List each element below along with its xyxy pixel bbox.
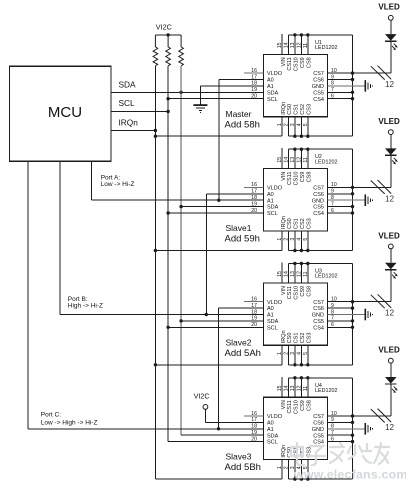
bus-width slash marks (U2) (371, 180, 391, 194)
svg-text:CS1: CS1 (294, 104, 300, 115)
node U2 right bus junctions (351, 186, 354, 215)
terminal VI2C (U4 A0) (194, 391, 210, 409)
svg-text:IRQn: IRQn (281, 216, 287, 229)
node U1 SCL junction (166, 97, 169, 100)
decorative watermark (site logo, light gray) (291, 443, 406, 482)
wire U4 GND pin8 (328, 428, 366, 430)
wire SDA (MCU to U1 pin19 and SDA trunk) (111, 80, 264, 93)
wire U1 CS8-CS11 top bus (288, 35, 352, 54)
node U3 SDA junction (179, 319, 182, 322)
svg-text:SCL: SCL (267, 325, 278, 331)
svg-text:Slave2: Slave2 (226, 337, 252, 347)
wire U4 IRQn pin1 to trunk (155, 460, 282, 480)
svg-text:12: 12 (385, 309, 395, 318)
svg-text:CS9: CS9 (300, 400, 306, 411)
wire U4 VIN stub pin15 (281, 377, 283, 397)
svg-text:CS10: CS10 (294, 57, 300, 71)
U2 right pin number labels (331, 182, 337, 214)
svg-text:SCL: SCL (119, 98, 136, 108)
svg-text:CS6: CS6 (313, 78, 324, 84)
svg-text:CS8: CS8 (307, 57, 313, 68)
svg-text:VLED: VLED (378, 3, 400, 12)
svg-text:GND: GND (312, 198, 324, 204)
wire U2 VLDO stub pin16 (244, 186, 264, 188)
wire U2 CS0-CS3 bottom bus (288, 231, 352, 251)
node U4 SDA junction (0, 0, 1, 1)
wire U1 CS0-CS3 bottom bus (288, 117, 352, 137)
wire U1 right CS pins to bus (328, 35, 353, 136)
wire SCL trunk vertical (167, 66, 169, 442)
svg-text:A1: A1 (267, 427, 274, 433)
svg-text:Add 58h: Add 58h (225, 119, 260, 130)
svg-text:12: 12 (385, 423, 395, 432)
svg-text:A1: A1 (267, 198, 274, 204)
node U3 bottom bus junctions (293, 363, 309, 366)
wire U1 LED return to CS bus (353, 41, 391, 73)
wire SCL (MCU to SCL trunk) (111, 98, 168, 112)
svg-text:CS5: CS5 (313, 433, 324, 439)
wire U4 SDA pin19 from trunk (181, 434, 263, 436)
wire U4 CS0-CS3 bottom bus (288, 460, 352, 480)
svg-text:Add 5Bh: Add 5Bh (225, 462, 261, 473)
node U2 SCL junction (166, 211, 169, 214)
wire U4 SCL pin20 from trunk (168, 441, 263, 443)
svg-text:12: 12 (385, 194, 395, 203)
svg-text:CS4: CS4 (313, 440, 324, 446)
bus width label 12 (U2) (385, 194, 395, 203)
LED D2 (12x LED string of U2) (385, 135, 398, 165)
wire U3 SCL pin20 from trunk (168, 326, 263, 328)
svg-text:Slave3: Slave3 (226, 452, 252, 462)
LED D3 (12x LED string of U3) (385, 249, 398, 279)
U2 left pin number labels (251, 182, 257, 214)
wire U3 LED return to CS bus (353, 270, 391, 302)
svg-text:SDA: SDA (267, 205, 279, 211)
LED D4 (12x LED string of U4) (385, 363, 398, 393)
node SCL-MCU junction (166, 110, 169, 113)
svg-text:VLDO: VLDO (267, 414, 283, 420)
svg-text:12: 12 (385, 80, 395, 89)
svg-text:CS0: CS0 (287, 333, 293, 344)
U4 bottom pin number labels (277, 466, 309, 469)
wire U3 GND pin8 (328, 314, 366, 316)
svg-text:SDA: SDA (267, 433, 279, 439)
svg-text:VLED: VLED (378, 231, 400, 240)
svg-text:LED1202: LED1202 (315, 388, 337, 394)
svg-text:VLED: VLED (378, 117, 400, 126)
wire U2 VIN stub pin15 (281, 148, 283, 168)
wire U3 VIN stub pin15 (281, 263, 283, 283)
svg-text:CS7: CS7 (313, 300, 324, 306)
wire Port A (MCU to U2 A1) (92, 161, 264, 200)
terminal VLED (U3 LED supply) (378, 231, 400, 249)
svg-text:VIN: VIN (281, 400, 287, 409)
ground (U1 A1) (193, 105, 207, 113)
wire U3 SDA pin19 from trunk (181, 320, 263, 322)
node U2 top bus junctions (293, 148, 309, 151)
svg-text:CS10: CS10 (294, 400, 300, 414)
wire IRQn (MCU to IRQn trunk) (111, 117, 155, 130)
U1 right pin number labels (331, 68, 337, 100)
node A0/PortC junction (217, 427, 220, 430)
wire U4 right CS pins to bus (328, 378, 353, 479)
svg-text:CS2: CS2 (300, 104, 306, 115)
svg-text:A0: A0 (267, 78, 274, 84)
svg-text:LED1202: LED1202 (315, 274, 337, 280)
svg-text:CS7: CS7 (313, 186, 324, 192)
wire SDA trunk vertical (180, 66, 182, 435)
U1 left pin number labels (251, 68, 257, 100)
LED D1 (12x LED string of U1) (385, 20, 398, 50)
svg-text:CS2: CS2 (300, 218, 306, 229)
node U4 top bus junctions (293, 376, 309, 379)
U3 right pin number labels (331, 297, 337, 329)
wire IRQn trunk vertical (154, 66, 156, 479)
ground (U2 pin8) (365, 194, 372, 206)
svg-text:CS11: CS11 (287, 57, 293, 70)
wire Port B (MCU to U3 A1) (60, 161, 264, 314)
svg-text:SDA: SDA (267, 319, 279, 325)
wire U2 IRQn pin1 to trunk (155, 231, 282, 251)
svg-text:18: 18 (251, 195, 257, 201)
svg-text:IRQn: IRQn (281, 102, 287, 115)
node IRQn-MCU junction (154, 129, 157, 132)
svg-text:CS6: CS6 (313, 306, 324, 312)
svg-text:Master: Master (226, 109, 252, 119)
node U4 bottom bus junctions (293, 477, 309, 480)
node U3 right bus junctions (351, 300, 354, 329)
U2 bottom pin number labels (277, 238, 309, 241)
wire U2 GND pin8 (328, 199, 366, 201)
svg-text:CS6: CS6 (313, 192, 324, 198)
svg-text:CS1: CS1 (294, 333, 300, 344)
bus width label 12 (U1) (385, 80, 395, 89)
svg-text:LED1202: LED1202 (315, 159, 337, 165)
svg-text:CS11: CS11 (287, 286, 293, 299)
svg-text:SCL: SCL (267, 97, 278, 103)
ground (U3 pin8) (365, 309, 372, 321)
wire U1 IRQn pin1 to trunk (155, 117, 282, 137)
svg-text:Low -> Hi-Z: Low -> Hi-Z (101, 181, 135, 188)
svg-text:CS5: CS5 (313, 90, 324, 96)
svg-text:CS9: CS9 (300, 57, 306, 68)
node U2 SDA junction (179, 205, 182, 208)
bus-width slash marks (U1) (371, 66, 391, 80)
ground (U1 pin8) (365, 80, 372, 92)
svg-text:SCL: SCL (267, 440, 278, 446)
svg-text:GND: GND (312, 313, 324, 319)
svg-text:MCU: MCU (48, 104, 82, 121)
op IC U4 LED1202 body (264, 383, 338, 460)
wire U3 right CS pins to bus (328, 264, 353, 365)
svg-text:CS1: CS1 (294, 218, 300, 229)
svg-text:CS0: CS0 (287, 104, 293, 115)
U2 top pin number labels (277, 157, 309, 163)
svg-text:CS8: CS8 (307, 286, 313, 297)
node U1 bottom bus junctions (293, 135, 309, 138)
wire U2 CS8-CS11 top bus (288, 149, 352, 168)
bus-width slash marks (U3) (371, 294, 391, 308)
node U4 right bus junctions (351, 414, 354, 443)
svg-text:SDA: SDA (119, 80, 137, 90)
wire U1 GND pin8 (328, 85, 366, 87)
svg-text:18: 18 (251, 309, 257, 315)
U4 right pin number labels (331, 411, 337, 443)
wire U2 SCL pin20 from trunk (168, 212, 263, 214)
svg-text:High -> Hi-Z: High -> Hi-Z (68, 302, 103, 309)
node VI2C rail junction (166, 33, 169, 36)
svg-text:CS8: CS8 (307, 172, 313, 183)
svg-text:CS11: CS11 (287, 172, 293, 185)
svg-text:18: 18 (251, 424, 257, 430)
wire U1 A0 to Port A net (219, 80, 264, 201)
svg-text:CS10: CS10 (294, 286, 300, 300)
bus-width slash marks (U4) (371, 409, 391, 423)
node A0/PortA junction (217, 199, 220, 202)
svg-text:CS4: CS4 (313, 97, 324, 103)
wire U1 SDA pin19 from trunk (0, 0, 1, 1)
U4 left pin number labels (251, 411, 257, 443)
svg-text:19: 19 (251, 87, 257, 93)
wire U1 SCL pin20 from trunk (168, 98, 263, 100)
node A0/PortB junction (205, 313, 208, 316)
svg-text:IRQn: IRQn (119, 117, 139, 127)
node U2 bottom bus junctions (293, 249, 309, 252)
bus width label 12 (U3) (385, 309, 395, 318)
svg-text:CS5: CS5 (313, 205, 324, 211)
svg-text:GND: GND (312, 84, 324, 90)
svg-text:LED1202: LED1202 (315, 45, 337, 51)
svg-text:VLDO: VLDO (267, 300, 283, 306)
wire U3 CS8-CS11 top bus (288, 264, 352, 283)
svg-text:GND: GND (312, 427, 324, 433)
U3 left pin number labels (251, 297, 257, 329)
svg-text:VLDO: VLDO (267, 71, 283, 77)
terminal VLED (U4 LED supply) (378, 346, 400, 364)
svg-text:CS11: CS11 (287, 400, 293, 413)
op IC U1 LED1202 body (264, 40, 338, 117)
wire VI2C terminal to U4 A0 (205, 409, 263, 422)
svg-text:VI2C: VI2C (194, 391, 210, 400)
svg-text:CS9: CS9 (300, 172, 306, 183)
node U3 top bus junctions (293, 262, 309, 265)
wire Port C (MCU to U4 A1) (28, 161, 263, 429)
svg-text:SDA: SDA (267, 90, 279, 96)
svg-text:CS2: CS2 (300, 333, 306, 344)
U2 designation label Slave1 Add 59h (225, 223, 260, 245)
svg-text:Low -> High -> Hi-Z: Low -> High -> Hi-Z (41, 419, 98, 426)
node SDA trunk junction (179, 91, 182, 94)
bus width label 12 (U4) (385, 423, 395, 432)
svg-text:IRQn: IRQn (281, 445, 287, 458)
U4 designation label Slave3 Add 5Bh (225, 452, 261, 474)
MCU block (10, 66, 112, 161)
U4 top pin number labels (277, 385, 309, 391)
U3 designation label Slave2 Add 5Ah (225, 337, 261, 359)
U3 top pin number labels (277, 271, 309, 277)
resistor R3 (SDA pull-up) (179, 35, 184, 66)
U1 top pin number labels (277, 42, 309, 48)
svg-text:CS9: CS9 (300, 286, 306, 297)
svg-text:VIN: VIN (281, 57, 287, 66)
svg-text:IRQn: IRQn (281, 330, 287, 343)
op IC U3 LED1202 body (264, 269, 338, 346)
svg-text:VLDO: VLDO (267, 186, 283, 192)
svg-text:A0: A0 (267, 306, 274, 312)
wire U4 LED return to CS bus (353, 384, 391, 416)
resistor R2 (SCL pull-up) (166, 35, 171, 66)
wire U1 A1 to ground (200, 86, 263, 105)
svg-text:CS3: CS3 (307, 104, 313, 115)
svg-text:A1: A1 (267, 313, 274, 319)
svg-text:Add 5Ah: Add 5Ah (225, 348, 261, 359)
node U3 IRQn trunk junction (154, 363, 157, 366)
svg-text:CS3: CS3 (307, 333, 313, 344)
svg-text:18: 18 (251, 81, 257, 87)
svg-text:17: 17 (251, 189, 257, 195)
terminal VLED (U2 LED supply) (378, 117, 400, 135)
wire U4 VLDO stub pin16 (244, 415, 264, 417)
wire U3 CS0-CS3 bottom bus (288, 345, 352, 365)
svg-text:Add 59h: Add 59h (225, 234, 260, 245)
svg-text:17: 17 (251, 74, 257, 80)
svg-text:VLED: VLED (378, 346, 400, 355)
U3 bottom pin number labels (277, 352, 309, 355)
op IC U2 LED1202 body (264, 154, 338, 231)
ground (U4 pin8) (365, 423, 372, 435)
node U1 right bus junctions (351, 71, 354, 100)
svg-text:CS4: CS4 (313, 325, 324, 331)
node U1 top bus junctions (293, 33, 309, 36)
svg-text:VI2C: VI2C (156, 23, 172, 32)
svg-text:CS7: CS7 (313, 414, 324, 420)
svg-text:SCL: SCL (267, 211, 278, 217)
wire U3 IRQn pin1 to trunk (155, 345, 282, 365)
wire U1 VIN stub pin15 (281, 34, 283, 54)
U1 designation label Master Add 58h (225, 109, 260, 131)
wire U1 VLDO stub pin16 (244, 72, 264, 74)
svg-text:CS5: CS5 (313, 319, 324, 325)
svg-text:www.elecfans.com: www.elecfans.com (293, 468, 406, 482)
svg-text:Slave1: Slave1 (226, 223, 252, 233)
wire U2 LED return to CS bus (353, 155, 391, 187)
svg-text:CS4: CS4 (313, 211, 324, 217)
wire U3 A0 to Port C net (219, 308, 264, 429)
svg-text:CS7: CS7 (313, 71, 324, 77)
terminal VLED (U1 LED supply) (378, 3, 400, 21)
svg-text:VIN: VIN (281, 286, 287, 295)
net label VI2C (pull-up rail) (155, 23, 181, 35)
node U3 SCL junction (166, 326, 169, 329)
svg-text:CS8: CS8 (307, 400, 313, 411)
wire U4 CS8-CS11 top bus (288, 378, 352, 397)
U1 bottom pin number labels (277, 123, 309, 126)
svg-text:Port C:: Port C: (41, 412, 61, 419)
node U1 IRQn trunk junction (154, 135, 157, 138)
wire U2 right CS pins to bus (328, 149, 353, 250)
svg-text:CS3: CS3 (307, 218, 313, 229)
node U2 IRQn trunk junction (154, 249, 157, 252)
svg-text:CS10: CS10 (294, 172, 300, 186)
wire U2 A0 to Port B net (206, 194, 263, 315)
wire U2 SDA pin19 from trunk (181, 206, 263, 208)
svg-text:17: 17 (251, 303, 257, 309)
svg-text:CS6: CS6 (313, 421, 324, 427)
wire U3 VLDO stub pin16 (244, 301, 264, 303)
svg-text:VIN: VIN (281, 172, 287, 181)
svg-text:17: 17 (251, 417, 257, 423)
resistor R1 (IRQn pull-up) (153, 35, 158, 66)
svg-text:A0: A0 (267, 192, 274, 198)
svg-text:A0: A0 (267, 421, 274, 427)
svg-text:A1: A1 (267, 84, 274, 90)
svg-text:CS0: CS0 (287, 218, 293, 229)
